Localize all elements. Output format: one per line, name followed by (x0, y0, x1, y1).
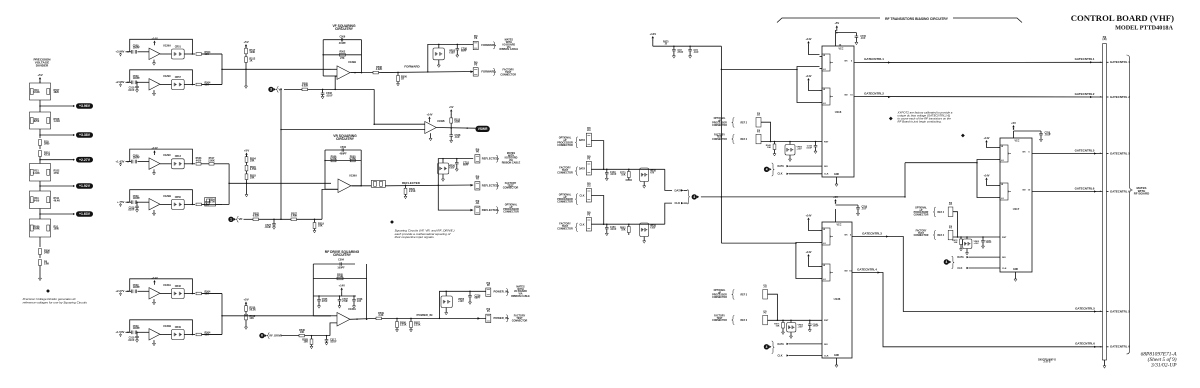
svg-text:27UF: 27UF (322, 301, 328, 303)
svg-text:CONNECTOR: CONNECTOR (712, 139, 727, 141)
svg-text:DATA: DATA (778, 165, 785, 168)
svg-text:GATECNTRL1: GATECNTRL1 (1075, 57, 1095, 61)
svg-text:+10V: +10V (974, 243, 980, 245)
svg-text:RF Board to just begin conduct: RF Board to just begin conducting. (898, 119, 942, 123)
svg-text:100K: 100K (454, 120, 460, 123)
svg-text:.01UF: .01UF (986, 242, 993, 244)
svg-text:10K: 10K (250, 177, 255, 180)
svg-text:LO: LO (1001, 160, 1004, 162)
svg-text:.1UF: .1UF (694, 52, 700, 54)
svg-text:RIBBON CABLE: RIBBON CABLE (500, 48, 519, 51)
svg-text:.1UF: .1UF (862, 209, 868, 211)
svg-text:56.2K: 56.2K (249, 308, 256, 311)
svg-text:U139A: U139A (349, 173, 357, 177)
svg-text:43.10: 43.10 (44, 154, 51, 157)
svg-text:+5V: +5V (449, 105, 454, 109)
svg-text:401PF: 401PF (339, 42, 347, 45)
svg-text:GND: GND (1013, 269, 1018, 271)
svg-text:6.02K: 6.02K (253, 215, 260, 218)
svg-text:REF 3: REF 3 (741, 320, 748, 322)
svg-text:CLK: CLK (824, 355, 829, 357)
svg-text:2.21K: 2.21K (414, 324, 421, 327)
svg-text:FORWARD: FORWARD (404, 65, 420, 69)
svg-text:.1UF: .1UF (860, 38, 866, 40)
svg-text:REF 4: REF 4 (938, 211, 945, 214)
svg-text:.01UF: .01UF (610, 174, 617, 176)
svg-text:+10V: +10V (449, 52, 455, 55)
svg-text:3900: 3900 (44, 143, 50, 146)
svg-text:6: 6 (261, 334, 263, 338)
svg-text:REF 3: REF 3 (741, 294, 748, 296)
svg-text:+14V: +14V (339, 283, 346, 287)
svg-text:GATECNTRL 1: GATECNTRL 1 (1110, 60, 1130, 64)
svg-text:MODEL PTTD4018A: MODEL PTTD4018A (1115, 24, 1173, 31)
svg-text:REF 4: REF 4 (938, 234, 945, 237)
svg-text:CONNECTOR: CONNECTOR (914, 214, 929, 216)
svg-text:100PF: 100PF (133, 286, 141, 289)
svg-text:DATA: DATA (778, 343, 785, 346)
svg-text:6.25K: 6.25K (330, 157, 337, 160)
svg-text:SDI: SDI (824, 166, 828, 168)
svg-text:POWER_IN: POWER_IN (417, 313, 433, 317)
svg-text:+5V: +5V (650, 173, 655, 175)
svg-text:8450: 8450 (34, 199, 40, 202)
svg-text:CONNECTOR: CONNECTOR (503, 187, 519, 190)
svg-text:LO: LO (823, 103, 826, 105)
svg-text:C506: C506 (340, 146, 346, 149)
svg-text:100PF: 100PF (337, 267, 345, 270)
svg-text:+1.50V: +1.50V (115, 330, 124, 334)
svg-text:.1UF: .1UF (455, 136, 461, 139)
svg-text:REF 2: REF 2 (741, 122, 748, 124)
svg-text:CLK: CLK (778, 354, 783, 357)
svg-text:REFLECTED,: REFLECTED, (482, 183, 499, 187)
svg-text:+10V: +10V (650, 228, 656, 230)
svg-text:100PF: 100PF (133, 47, 141, 50)
svg-text:their respective input signals: their respective input signals. (395, 235, 435, 239)
svg-text:U139B: U139B (437, 120, 445, 123)
svg-text:GND: GND (834, 174, 839, 176)
svg-text:68PF: 68PF (461, 50, 467, 53)
svg-text:U129C: U129C (163, 74, 171, 78)
svg-text:+5V: +5V (834, 21, 839, 25)
svg-text:RF_DRIVE: RF_DRIVE (270, 334, 283, 338)
svg-text:2.2K: 2.2K (378, 314, 383, 317)
svg-text:DIVIDER: DIVIDER (36, 63, 49, 67)
svg-text:+5V: +5V (243, 297, 248, 301)
svg-text:+3.96V: +3.96V (79, 104, 91, 108)
svg-text:CIRCUITRY: CIRCUITRY (333, 253, 352, 257)
svg-text:+10V: +10V (797, 148, 803, 150)
svg-text:1: 1 (230, 217, 232, 221)
svg-text:REFLECTED: REFLECTED (402, 181, 421, 185)
svg-text:100PF: 100PF (133, 77, 141, 80)
svg-text:.01UF: .01UF (1045, 135, 1052, 137)
svg-text:100K: 100K (249, 51, 255, 54)
svg-text:CIRCUITRY: CIRCUITRY (336, 137, 355, 141)
svg-text:U129C: U129C (163, 153, 171, 157)
svg-text:27K: 27K (340, 57, 345, 60)
svg-text:VCC: VCC (1015, 141, 1020, 143)
svg-text:REFLECTED,: REFLECTED, (482, 156, 499, 160)
svg-text:4420: 4420 (196, 159, 202, 162)
svg-text:2.80K: 2.80K (208, 159, 215, 162)
svg-text:4: 4 (946, 260, 948, 264)
svg-text:POWER_IN,: POWER_IN, (494, 290, 509, 294)
svg-text:4: 4 (766, 167, 768, 171)
svg-text:+3.96V: +3.96V (115, 50, 124, 54)
svg-text:GATECNTRL1: GATECNTRL1 (864, 57, 884, 61)
svg-text:(J6): (J6) (1102, 39, 1106, 41)
svg-text:+14V: +14V (426, 112, 432, 116)
svg-text:27UF: 27UF (342, 301, 348, 303)
svg-text:CLK: CLK (675, 201, 681, 205)
svg-text:46.4K: 46.4K (54, 199, 61, 202)
svg-text:GATECNTRL2: GATECNTRL2 (864, 92, 884, 96)
svg-text:GATECNTRL 6: GATECNTRL 6 (1110, 189, 1130, 193)
svg-text:1K: 1K (249, 60, 252, 63)
svg-text:CLK: CLK (824, 174, 829, 176)
svg-text:+1.63V: +1.63V (79, 212, 91, 216)
svg-text:DATA: DATA (675, 188, 682, 192)
svg-text:reference voltages for use by: reference voltages for use by Squaring C… (23, 300, 88, 304)
svg-text:10K: 10K (767, 147, 771, 149)
svg-text:RF BOARD: RF BOARD (1134, 192, 1150, 196)
svg-text:.01UF: .01UF (610, 229, 617, 231)
svg-text:10K: 10K (304, 341, 309, 344)
svg-text:CONNECTOR: CONNECTOR (557, 144, 573, 147)
svg-text:47.5K: 47.5K (209, 201, 215, 204)
svg-text:400PF: 400PF (340, 152, 348, 155)
svg-text:U130B: U130B (163, 324, 171, 328)
svg-text:4.64K: 4.64K (33, 91, 40, 94)
svg-text:1.62K: 1.62K (33, 172, 40, 175)
svg-text:10K: 10K (621, 175, 626, 177)
svg-text:3: 3 (270, 87, 272, 91)
svg-text:100PF: 100PF (133, 197, 141, 200)
svg-text:+10V: +10V (449, 167, 455, 170)
svg-text:GATECNTRL 5: GATECNTRL 5 (1110, 151, 1130, 155)
svg-text:CR13: CR13 (175, 155, 182, 158)
svg-text:12.4K: 12.4K (337, 275, 344, 278)
svg-text:GATECNTRL5: GATECNTRL5 (1075, 306, 1095, 310)
svg-text:VCC: VCC (837, 225, 842, 227)
svg-text:4.64K: 4.64K (33, 228, 40, 231)
svg-text:CR46: CR46 (175, 285, 182, 288)
svg-text:VR: VR (239, 217, 243, 221)
svg-text:68PF: 68PF (475, 297, 481, 300)
svg-text:10K: 10K (250, 159, 255, 162)
svg-text:1000: 1000 (54, 228, 60, 231)
svg-text:FORWARD,: FORWARD, (481, 43, 496, 47)
svg-text:CONTROL BOARD (VHF): CONTROL BOARD (VHF) (1071, 13, 1174, 23)
svg-text:VSWR: VSWR (478, 127, 488, 131)
svg-text:GATECNTRL4: GATECNTRL4 (857, 267, 877, 271)
svg-text:4750: 4750 (54, 172, 60, 175)
svg-text:U130A: U130A (163, 283, 171, 287)
svg-text:RF TRANSISTORS BIASING CIRCUIT: RF TRANSISTORS BIASING CIRCUITRY (885, 17, 949, 21)
svg-text:CR57: CR57 (175, 76, 182, 79)
svg-text:.01UF: .01UF (813, 326, 820, 328)
svg-text:DATA: DATA (957, 256, 964, 259)
svg-text:U130A: U130A (348, 307, 356, 311)
svg-text:CR50: CR50 (175, 196, 182, 199)
svg-text:10K: 10K (954, 242, 958, 244)
svg-text:GATECNTRL5: GATECNTRL5 (1075, 148, 1095, 152)
svg-text:.01UF: .01UF (330, 341, 337, 344)
svg-text:10K: 10K (300, 331, 305, 334)
svg-text:1K: 1K (401, 78, 404, 81)
svg-text:U129A: U129A (163, 43, 171, 47)
svg-text:10K: 10K (621, 230, 626, 232)
svg-text:VCC: VCC (839, 49, 844, 51)
svg-text:+14V: +14V (805, 37, 811, 41)
svg-text:CONNECTOR: CONNECTOR (503, 211, 519, 214)
svg-text:CLK: CLK (778, 173, 783, 176)
svg-text:CONNECTOR: CONNECTOR (914, 235, 929, 237)
svg-text:FORWARD,: FORWARD, (481, 70, 496, 74)
svg-text:10K: 10K (776, 325, 780, 327)
svg-text:CONNECTOR: CONNECTOR (557, 201, 573, 204)
svg-text:+1.43V: +1.43V (115, 159, 124, 163)
svg-text:+14V: +14V (649, 32, 656, 36)
svg-text:CONNECTOR: CONNECTOR (500, 73, 516, 76)
svg-text:.01UF: .01UF (128, 89, 135, 92)
svg-text:+2.96V: +2.96V (115, 80, 124, 84)
svg-text:.01UF: .01UF (128, 339, 135, 342)
svg-text:CONNECTOR: CONNECTOR (712, 297, 727, 299)
svg-text:4.02K: 4.02K (376, 68, 383, 71)
svg-text:REFLECTED,: REFLECTED, (482, 208, 499, 212)
svg-text:LO: LO (823, 243, 826, 245)
svg-text:2.21K: 2.21K (400, 324, 407, 327)
svg-text:POWER_IN,: POWER_IN, (494, 316, 509, 320)
svg-text:U136: U136 (834, 297, 841, 301)
svg-text:+10V: +10V (458, 300, 464, 303)
svg-text:LO: LO (1001, 198, 1004, 200)
svg-text:6.02K: 6.02K (302, 85, 309, 88)
svg-text:1.21K: 1.21K (54, 120, 61, 123)
svg-text:+1.92V: +1.92V (79, 184, 91, 188)
svg-text:4: 4 (766, 345, 768, 349)
svg-text:2.21K: 2.21K (409, 190, 416, 193)
svg-text:U117: U117 (1013, 207, 1020, 211)
svg-text:C504: C504 (338, 259, 344, 262)
svg-text:.01UF: .01UF (326, 94, 333, 97)
svg-text:100PF: 100PF (133, 157, 141, 160)
svg-text:+3.38V: +3.38V (79, 133, 91, 137)
svg-text:+5V: +5V (243, 40, 248, 44)
svg-text:CR49: CR49 (175, 326, 182, 329)
svg-text:.01UF: .01UF (806, 147, 813, 149)
svg-text:U139B: U139B (348, 60, 356, 64)
svg-text:DATA: DATA (579, 168, 586, 171)
svg-text:+5V: +5V (244, 148, 249, 152)
svg-text:+14V: +14V (805, 213, 811, 217)
svg-text:.01UF: .01UF (264, 226, 271, 229)
svg-text:5.6K: 5.6K (44, 263, 49, 266)
svg-text:100PF: 100PF (133, 327, 141, 330)
svg-text:+14V: +14V (805, 74, 811, 78)
svg-text:RST: RST (824, 320, 829, 322)
svg-text:8250: 8250 (34, 120, 40, 123)
svg-text:CLK: CLK (580, 224, 585, 227)
svg-text:U129B: U129B (163, 194, 171, 198)
svg-text:+5V: +5V (37, 73, 42, 77)
svg-text:1UF: 1UF (357, 301, 362, 303)
svg-text:+14V: +14V (805, 250, 811, 254)
svg-text:U116: U116 (835, 110, 842, 114)
svg-text:C506: C506 (339, 36, 345, 39)
svg-text:LO: LO (823, 279, 826, 281)
svg-text:2-27-S: 2-27-S (1044, 362, 1051, 364)
svg-text:4820: 4820 (54, 91, 60, 94)
svg-text:R502: R502 (339, 51, 345, 54)
svg-text:CONNECTOR: CONNECTOR (712, 125, 727, 127)
svg-text:GATECNTRL 6: GATECNTRL 6 (1110, 345, 1130, 349)
svg-text:10K: 10K (249, 317, 254, 320)
svg-text:GATECNTRL6: GATECNTRL6 (1075, 342, 1095, 346)
svg-text:SDI: SDI (1002, 257, 1006, 259)
svg-text:CLK: CLK (957, 267, 962, 270)
svg-text:DATA: DATA (579, 139, 586, 142)
svg-text:3/31/02-UP: 3/31/02-UP (1150, 363, 1177, 369)
svg-text:CONNECTOR: CONNECTOR (512, 320, 528, 323)
svg-text:+14V: +14V (983, 173, 989, 177)
svg-text:REF 2: REF 2 (741, 139, 748, 141)
svg-text:3400: 3400 (44, 252, 50, 255)
svg-text:GATECNTRL 2: GATECNTRL 2 (1110, 95, 1130, 99)
svg-text:RST: RST (824, 141, 829, 143)
svg-text:RST: RST (1002, 237, 1007, 239)
svg-text:4.75K: 4.75K (250, 168, 257, 171)
svg-text:+2.27V: +2.27V (79, 158, 91, 162)
svg-text:SDI: SDI (824, 344, 828, 346)
svg-text:GATECNTRL3: GATECNTRL3 (862, 231, 882, 235)
svg-text:GATECNTRL6: GATECNTRL6 (1075, 186, 1095, 190)
svg-text:GATECNTRL2: GATECNTRL2 (1075, 92, 1095, 96)
svg-text:CR51: CR51 (175, 45, 182, 48)
svg-text:6.25K: 6.25K (349, 157, 356, 160)
svg-text:CLK: CLK (1002, 268, 1007, 270)
svg-text:+5V: +5V (833, 195, 838, 199)
svg-text:27UF: 27UF (678, 52, 684, 54)
svg-text:CONNECTOR: CONNECTOR (557, 228, 573, 231)
svg-text:RIBBON CABLE: RIBBON CABLE (511, 295, 530, 298)
svg-text:CONNECTOR: CONNECTOR (712, 320, 727, 322)
svg-text:GATECNTRL 5: GATECNTRL 5 (1110, 309, 1130, 313)
svg-text:J11: J11 (475, 202, 480, 205)
svg-text:CIRCUITRY: CIRCUITRY (335, 27, 354, 31)
svg-text:68PF: 68PF (463, 164, 469, 167)
svg-text:.01UF: .01UF (128, 209, 135, 212)
svg-text:2.49K: 2.49K (291, 215, 298, 218)
svg-text:+14V: +14V (983, 136, 989, 140)
svg-text:RIBBON CABLE: RIBBON CABLE (502, 162, 521, 165)
svg-text:+10V: +10V (798, 326, 804, 328)
svg-text:CLK: CLK (580, 195, 585, 198)
svg-text:4: 4 (693, 195, 695, 199)
svg-text:+2.27V: +2.27V (115, 289, 124, 293)
svg-text:GND: GND (834, 355, 839, 357)
svg-text:LO: LO (823, 69, 826, 71)
svg-text:10K: 10K (318, 225, 323, 228)
svg-text:+5V: +5V (1011, 121, 1016, 125)
svg-text:CONNECTOR: CONNECTOR (557, 171, 573, 174)
